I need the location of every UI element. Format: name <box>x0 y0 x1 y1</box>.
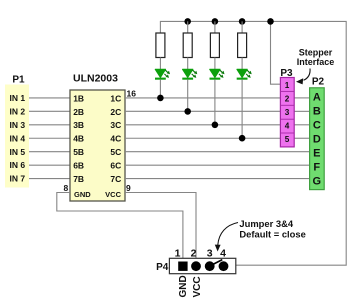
wire R4 to LED4 <box>241 58 243 70</box>
svg-text:IN 7: IN 7 <box>10 174 26 184</box>
wire 7C row to P2 G <box>125 178 310 180</box>
P4 pin1 square pad <box>178 262 187 271</box>
wire top supply rail <box>160 21 346 265</box>
svg-text:1: 1 <box>285 81 290 90</box>
svg-text:E: E <box>313 148 320 160</box>
svg-text:4: 4 <box>285 122 290 131</box>
svg-text:Stepper: Stepper <box>299 47 333 57</box>
wire LED2 to row2 <box>187 79 189 111</box>
junction LED4-row4 <box>239 135 246 142</box>
connector P2 body <box>310 88 325 190</box>
P4 pin2 pad <box>191 261 201 271</box>
junction LED3-row3 <box>212 122 219 129</box>
P4 pin3 pad <box>205 261 215 271</box>
wire 2C row to P3 pin3 <box>125 110 280 112</box>
svg-text:3B: 3B <box>73 120 84 130</box>
P4 pin4 pad <box>219 261 229 271</box>
Jumper note arrow <box>218 223 238 246</box>
resistor R2 <box>183 33 192 58</box>
svg-text:P1: P1 <box>12 75 25 86</box>
connector P3 body <box>280 78 294 147</box>
svg-text:IN 1: IN 1 <box>10 93 26 103</box>
svg-text:IN 6: IN 6 <box>10 160 26 170</box>
LED D2 <box>182 69 197 79</box>
wire IN1 to pin 1B <box>29 97 70 99</box>
wire LED4 to row4 <box>241 79 243 138</box>
LED D4 <box>237 69 252 79</box>
svg-text:P2: P2 <box>312 77 325 88</box>
wire 3C row to P3 pin4 <box>125 124 280 126</box>
wire 4C row to P3 pin5 <box>125 137 280 139</box>
wire R3 to LED3 <box>214 58 216 70</box>
wire 1C row to P3 pin2 <box>125 97 280 99</box>
connector P1 input strip <box>5 85 29 188</box>
svg-text:G: G <box>313 176 322 188</box>
svg-text:5: 5 <box>285 135 290 144</box>
junction rail node 3 <box>212 18 219 25</box>
svg-text:6C: 6C <box>110 161 121 171</box>
IC U1 ULN2003 body <box>70 90 125 201</box>
wire IN6 to pin 6B <box>29 164 70 166</box>
svg-text:Interface: Interface <box>297 57 335 67</box>
svg-text:6B: 6B <box>73 161 84 171</box>
wire LED1 to row1 <box>159 79 161 98</box>
wire link P3 pin4 to P2 C <box>294 124 309 126</box>
wire branch to P3 pin1 <box>271 21 281 84</box>
svg-text:IN 5: IN 5 <box>10 147 26 157</box>
svg-text:D: D <box>313 134 321 146</box>
svg-text:ULN2003: ULN2003 <box>73 73 118 85</box>
wire IN4 to pin 4B <box>29 137 70 139</box>
svg-text:4C: 4C <box>110 134 121 144</box>
svg-text:Default = close: Default = close <box>239 229 305 240</box>
resistor R1 <box>156 33 165 58</box>
LED D3 <box>210 69 225 79</box>
svg-text:8: 8 <box>64 183 69 193</box>
wire R1 to LED1 <box>159 58 161 70</box>
svg-text:P3: P3 <box>280 68 293 79</box>
svg-text:4: 4 <box>220 248 226 260</box>
svg-text:16: 16 <box>127 88 137 98</box>
resistor R4 <box>238 33 247 58</box>
svg-text:2: 2 <box>191 248 197 260</box>
wire link P3 pin3 to P2 B <box>294 110 309 112</box>
jumper closed switch pin3-pin4 <box>211 260 223 266</box>
wire GND pin8 to P4 pin1 <box>57 193 183 262</box>
svg-text:IN 2: IN 2 <box>10 107 26 117</box>
svg-text:P4: P4 <box>156 262 169 273</box>
wire IN3 to pin 3B <box>29 124 70 126</box>
wire 6C row to P2 F <box>125 164 310 166</box>
svg-text:C: C <box>313 120 321 132</box>
junction LED1-row1 <box>157 95 164 102</box>
svg-text:A: A <box>313 92 321 104</box>
wire rail to resistor column <box>214 21 216 33</box>
wire IN7 to pin 7B <box>29 178 70 180</box>
svg-text:3C: 3C <box>110 120 121 130</box>
junction rail node 2 <box>184 18 191 25</box>
junction LED2-row2 <box>184 108 191 115</box>
junction rail node 4 <box>239 18 246 25</box>
svg-text:1C: 1C <box>110 93 121 103</box>
svg-text:1: 1 <box>175 248 181 260</box>
wire R2 to LED2 <box>187 58 189 70</box>
wire IN5 to pin 5B <box>29 151 70 153</box>
svg-text:VCC: VCC <box>192 276 203 297</box>
svg-text:2C: 2C <box>110 107 121 117</box>
svg-text:4B: 4B <box>73 134 84 144</box>
wire 5C row to P2 E <box>125 151 310 153</box>
svg-text:1B: 1B <box>73 93 84 103</box>
svg-text:2B: 2B <box>73 107 84 117</box>
svg-text:VCC: VCC <box>105 190 121 199</box>
LED D1 <box>155 69 170 79</box>
wire IN2 to pin 2B <box>29 110 70 112</box>
resistor R3 <box>210 33 219 58</box>
svg-text:IN 4: IN 4 <box>10 133 26 143</box>
svg-text:Jumper 3&4: Jumper 3&4 <box>239 218 293 229</box>
svg-text:2: 2 <box>285 95 290 104</box>
connector P4 body <box>169 258 235 273</box>
svg-text:3: 3 <box>285 108 290 117</box>
wire rail to resistor column <box>187 21 189 33</box>
wire link P3 pin2 to P2 A <box>294 97 309 99</box>
svg-text:GND: GND <box>74 190 91 199</box>
svg-text:B: B <box>313 106 321 118</box>
svg-text:7B: 7B <box>73 174 84 184</box>
junction rail node 5 <box>267 18 274 25</box>
wire rail to resistor column <box>241 21 243 33</box>
svg-text:9: 9 <box>126 183 131 193</box>
Stepper note arrow <box>304 69 311 81</box>
svg-text:7C: 7C <box>110 174 121 184</box>
wire link P3 pin5 to P2 D <box>294 137 309 139</box>
P3 cell dividers <box>280 91 294 133</box>
svg-text:3: 3 <box>207 248 213 260</box>
svg-text:F: F <box>313 162 320 174</box>
svg-text:5B: 5B <box>73 147 84 157</box>
svg-text:GND: GND <box>178 275 189 297</box>
wire LED3 to row3 <box>214 79 216 124</box>
wire VCC pin9 to P4 pin2 <box>125 193 196 262</box>
svg-text:IN 3: IN 3 <box>10 120 26 130</box>
svg-text:5C: 5C <box>110 147 121 157</box>
